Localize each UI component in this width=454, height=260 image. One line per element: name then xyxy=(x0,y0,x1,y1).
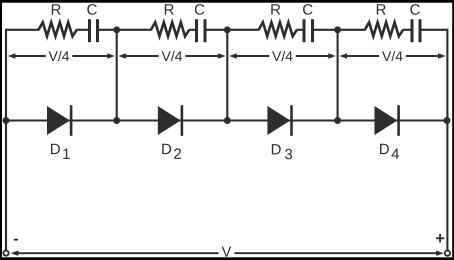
label V/4 cell 2 xyxy=(162,51,183,61)
label minus xyxy=(14,239,18,241)
label V/4 cell 1 xyxy=(49,51,70,61)
diode D4 xyxy=(375,106,398,135)
wire C3 to node3 xyxy=(314,29,338,31)
label D2 xyxy=(162,144,181,159)
wire R2 to C2 xyxy=(189,29,196,31)
wire R1 to C1 xyxy=(76,29,88,31)
V/4 dimension line cell 2 xyxy=(119,53,127,58)
V/4 dimension line cell 3 xyxy=(229,53,237,58)
wire C1 to node1 xyxy=(99,29,117,31)
label D4 xyxy=(380,144,399,159)
main wire (diode string) xyxy=(6,119,447,121)
wire node2 to R3 xyxy=(227,29,259,31)
capacitor C4 xyxy=(411,19,414,42)
capacitor C3 xyxy=(303,19,306,42)
wire C2 to node2 xyxy=(206,29,227,31)
label V/4 cell 3 xyxy=(272,51,293,61)
label V xyxy=(222,247,232,257)
V/4 dimension line cell 4 xyxy=(339,53,347,58)
label C (cell 2) xyxy=(195,4,204,15)
resistor R3 xyxy=(259,22,297,36)
V/4 dimension line cell 1 xyxy=(8,53,16,58)
diode D2 xyxy=(158,106,181,135)
wire C4 to node4 xyxy=(421,29,447,31)
wire R4 to C4 xyxy=(403,29,411,31)
V dimension line xyxy=(11,251,19,256)
vertical wire node3 xyxy=(337,30,339,121)
terminal right xyxy=(445,251,450,256)
label R (cell 2) xyxy=(165,4,174,14)
label C (cell 3) xyxy=(303,4,312,15)
wire node1 to R2 xyxy=(117,29,152,31)
diode D3 xyxy=(267,106,290,135)
label C (cell 4) xyxy=(410,4,419,15)
label plus xyxy=(436,237,444,239)
capacitor C1 xyxy=(88,19,91,42)
wire node0 to R1 xyxy=(6,29,39,31)
label C (cell 1) xyxy=(87,4,96,15)
resistor R2 xyxy=(151,22,189,36)
label R (cell 4) xyxy=(377,4,386,14)
label R (cell 3) xyxy=(271,4,280,14)
junction dots on main wire xyxy=(3,117,10,124)
resistor R4 xyxy=(365,22,403,36)
label V/4 cell 4 xyxy=(382,51,403,61)
label R (cell 1) xyxy=(52,4,61,14)
label D3 xyxy=(272,144,292,159)
wire node3 to R4 xyxy=(338,29,366,31)
left vertical wire xyxy=(5,29,7,250)
junction dots on top chain xyxy=(113,26,120,33)
resistor R1 xyxy=(39,22,77,36)
border frame xyxy=(0,0,454,3)
diode D1 xyxy=(47,106,70,135)
vertical wire node1 xyxy=(116,30,118,121)
label D1 xyxy=(51,144,70,159)
right vertical wire xyxy=(446,29,448,250)
wire R3 to C3 xyxy=(296,29,303,31)
vertical wire node2 xyxy=(226,30,228,121)
terminal left xyxy=(3,251,8,256)
capacitor C2 xyxy=(195,19,198,42)
